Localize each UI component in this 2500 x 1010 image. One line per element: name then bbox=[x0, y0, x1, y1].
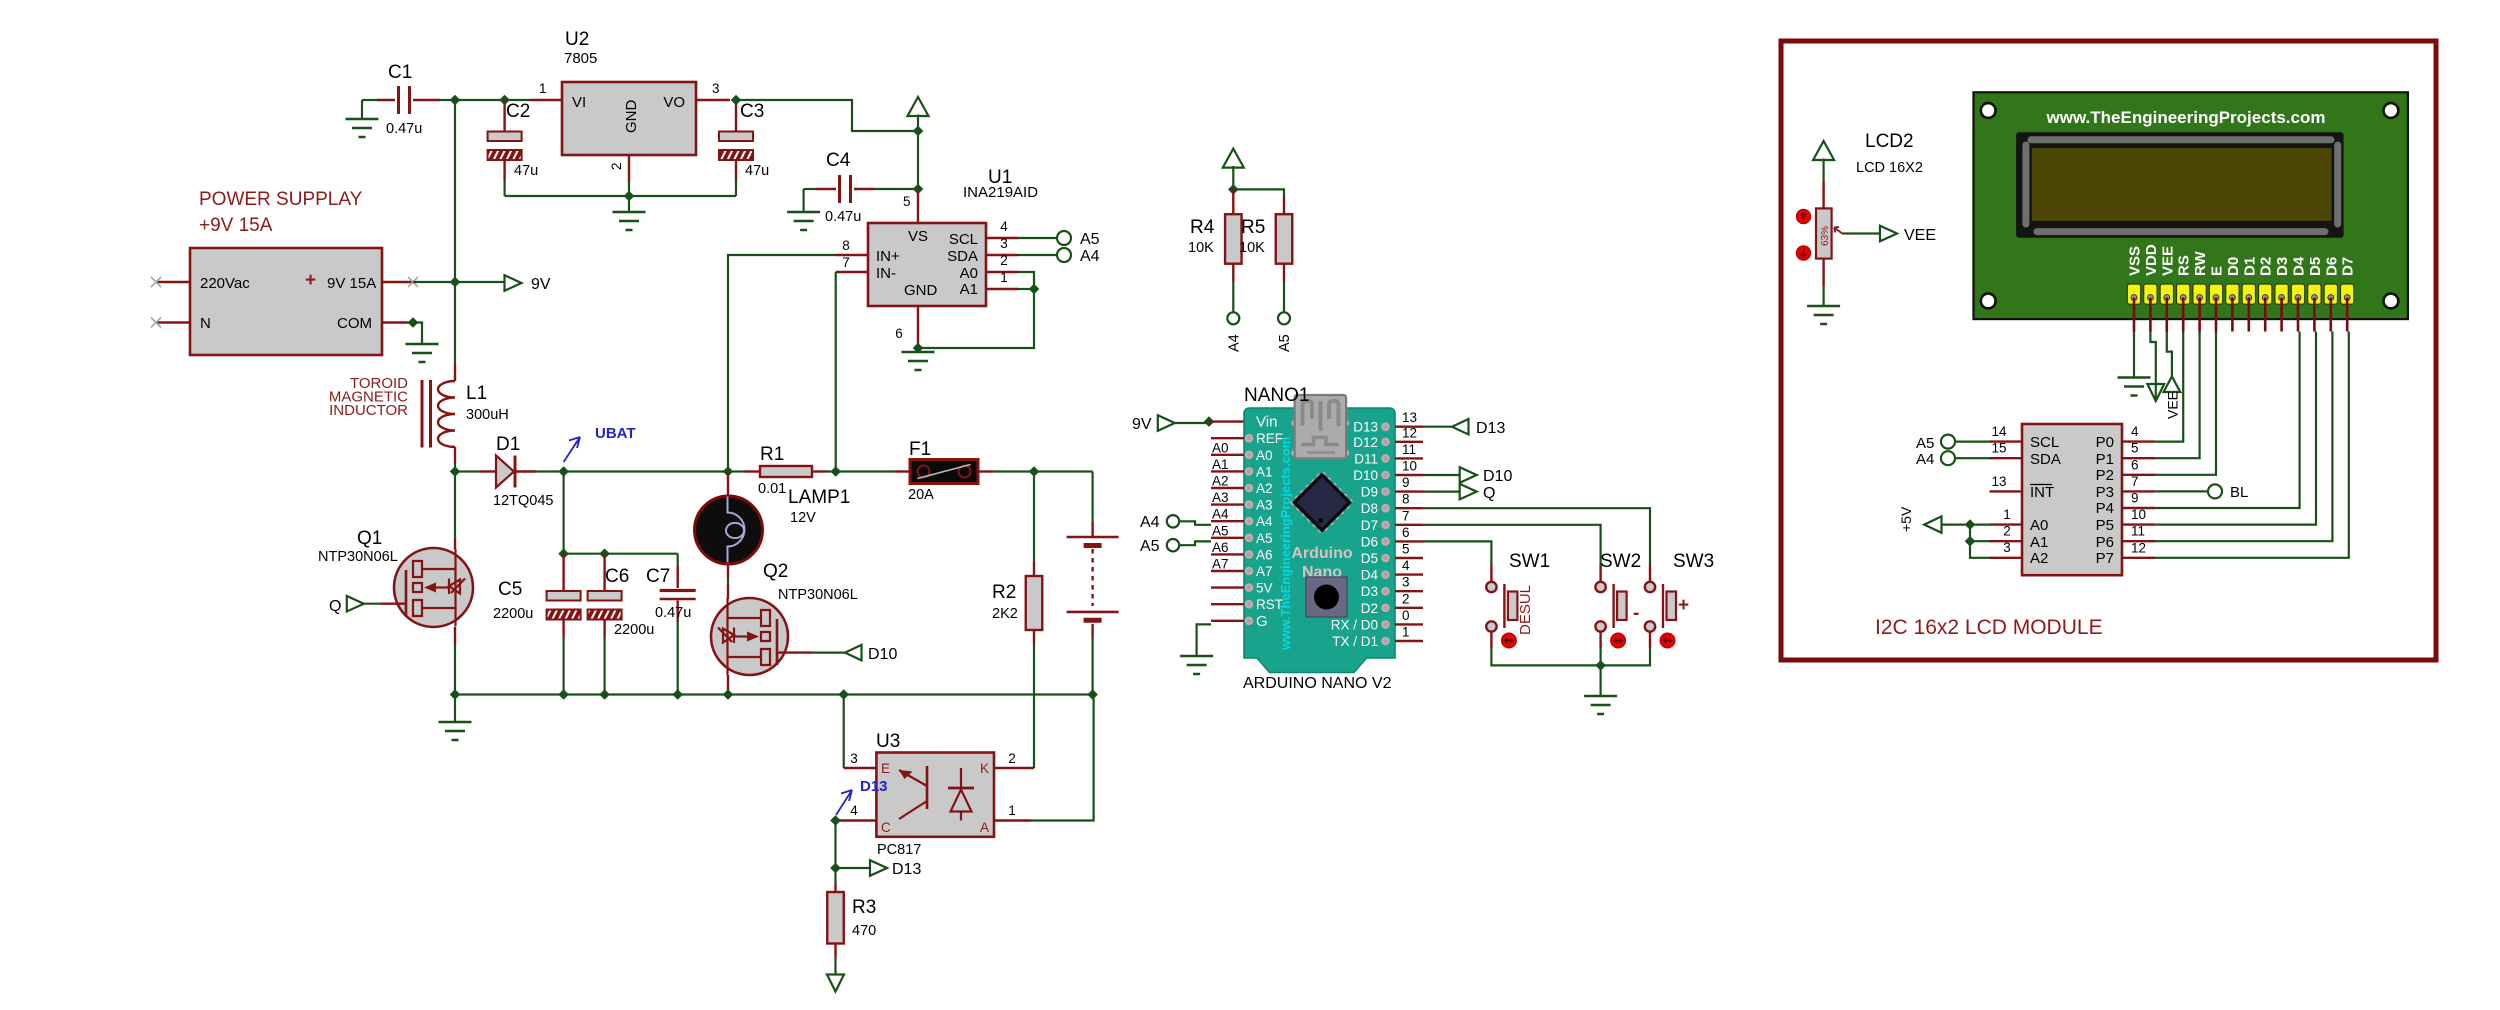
svg-text:VI: VI bbox=[572, 94, 586, 111]
pin stub nano A4 bbox=[1211, 507, 1273, 530]
transistor Q2 NTP30N06L bbox=[711, 561, 858, 695]
pin stub 9V output bbox=[382, 277, 418, 287]
svg-text:R3: R3 bbox=[852, 897, 876, 918]
svg-text:Vin: Vin bbox=[1256, 414, 1277, 431]
svg-text:P1: P1 bbox=[2096, 451, 2114, 468]
svg-text:3: 3 bbox=[1402, 575, 1410, 590]
svg-text:NANO1: NANO1 bbox=[1244, 385, 1309, 406]
svg-text:C4: C4 bbox=[826, 150, 851, 171]
svg-text:D4: D4 bbox=[2291, 256, 2308, 276]
svg-text:47u: 47u bbox=[745, 163, 769, 179]
svg-text:K: K bbox=[980, 761, 989, 776]
terminal BL bbox=[2208, 484, 2248, 501]
terminal A5 (R5) bbox=[1277, 312, 1293, 352]
svg-text:A5: A5 bbox=[1140, 538, 1160, 555]
svg-text:D0: D0 bbox=[2225, 257, 2242, 276]
svg-text:U2: U2 bbox=[565, 29, 589, 50]
junction C1/bus bbox=[450, 95, 461, 106]
svg-text:47u: 47u bbox=[514, 163, 538, 179]
svg-text:A2: A2 bbox=[1256, 481, 1273, 496]
pin stub nano D10 bbox=[1353, 459, 1423, 484]
resistor R1 0.01 bbox=[728, 444, 836, 497]
lcd pin RW bbox=[2192, 250, 2209, 331]
svg-text:7: 7 bbox=[1402, 508, 1410, 523]
wire C2 to U2 pin 1 bbox=[505, 99, 562, 101]
terminal Q (nano D9) bbox=[1460, 484, 1477, 500]
lcd pin D4 bbox=[2291, 256, 2308, 331]
svg-text:L1: L1 bbox=[466, 383, 487, 404]
lamp LAMP1 12V bbox=[695, 472, 851, 600]
svg-text:VEE: VEE bbox=[2159, 246, 2176, 276]
pin stub N bbox=[151, 318, 190, 328]
svg-text:9V: 9V bbox=[531, 276, 551, 293]
svg-text:A7: A7 bbox=[1212, 557, 1229, 572]
terminal 9V bbox=[505, 275, 522, 291]
svg-text:3: 3 bbox=[850, 751, 858, 766]
pin stub nano A6 bbox=[1211, 540, 1273, 563]
svg-text:REF: REF bbox=[1256, 431, 1283, 446]
svg-text:POWER SUPPLAY: POWER SUPPLAY bbox=[199, 189, 363, 210]
wire D13 to terminal bbox=[1423, 426, 1452, 428]
svg-text:7: 7 bbox=[2131, 474, 2139, 489]
frame I2C LCD module bbox=[1781, 41, 2436, 660]
wire lcd D7 to P7 bbox=[2156, 332, 2349, 558]
svg-text:COM: COM bbox=[337, 315, 372, 332]
svg-text:A4: A4 bbox=[1916, 451, 1934, 468]
svg-text:P4: P4 bbox=[2096, 500, 2114, 517]
svg-text:RW: RW bbox=[2192, 250, 2209, 276]
svg-text:C3: C3 bbox=[740, 101, 764, 122]
svg-text:D10: D10 bbox=[1483, 468, 1512, 485]
svg-text:VEE: VEE bbox=[2165, 391, 2181, 419]
wire lcd RW to P1 bbox=[2156, 332, 2200, 459]
pin stub nano A5 bbox=[1211, 523, 1273, 546]
pin stub nano D4 bbox=[1361, 558, 1423, 583]
fuse F1 20A bbox=[895, 439, 1034, 503]
pin 2 stub (U1 A0) bbox=[986, 253, 1034, 289]
junction C6 bottom bbox=[599, 689, 610, 700]
pot actuator down bbox=[1797, 246, 1811, 260]
svg-text:P6: P6 bbox=[2096, 534, 2114, 551]
pin stub COM bbox=[382, 321, 413, 323]
terminal A4 (U1 SDA) bbox=[1057, 248, 1100, 265]
lcd pin D5 bbox=[2307, 257, 2324, 332]
svg-text:P2: P2 bbox=[2096, 467, 2114, 484]
ground (main rail) bbox=[439, 695, 472, 741]
svg-text:VS: VS bbox=[908, 228, 928, 245]
wire down to C4 node bbox=[917, 131, 919, 189]
svg-text:A3: A3 bbox=[1212, 490, 1229, 505]
svg-text:D6: D6 bbox=[1361, 534, 1378, 549]
svg-text:0.01: 0.01 bbox=[758, 481, 786, 497]
wire bottom rail bbox=[455, 693, 1093, 695]
svg-text:P3: P3 bbox=[2096, 484, 2114, 501]
svg-text:D1: D1 bbox=[2241, 257, 2258, 276]
svg-text:I2C 16x2 LCD MODULE: I2C 16x2 LCD MODULE bbox=[1875, 616, 2103, 639]
svg-text:10K: 10K bbox=[1239, 240, 1265, 256]
wire SW1 to gnd rail bbox=[1491, 648, 1600, 665]
svg-text:+: + bbox=[1678, 595, 1689, 616]
pin 2 stub (A1) bbox=[1970, 524, 2022, 542]
svg-text:6: 6 bbox=[895, 326, 903, 341]
svg-text:D13: D13 bbox=[1353, 420, 1378, 435]
wire D7 to SW2 bbox=[1423, 525, 1601, 565]
capacitor C6 2200u bbox=[588, 554, 655, 695]
svg-text:D6: D6 bbox=[2323, 257, 2340, 276]
capacitor C1 bbox=[362, 62, 455, 137]
junction C3/VO bbox=[731, 95, 742, 106]
junction A0/A1 bbox=[1029, 284, 1040, 295]
lcd pin E bbox=[2209, 266, 2226, 332]
svg-text:ARDUINO NANO V2: ARDUINO NANO V2 bbox=[1243, 675, 1392, 692]
pin 5 stub (P1) bbox=[2122, 441, 2156, 459]
terminal D13 (U3) bbox=[870, 860, 887, 876]
svg-text:20A: 20A bbox=[908, 487, 934, 503]
svg-text:G: G bbox=[1256, 613, 1268, 630]
svg-text:A2: A2 bbox=[1212, 474, 1229, 489]
svg-text:4: 4 bbox=[1402, 558, 1410, 573]
lcd pin D7 bbox=[2340, 257, 2357, 332]
svg-text:2: 2 bbox=[2003, 524, 2011, 539]
svg-text:D10: D10 bbox=[1353, 468, 1378, 483]
svg-text:INDUCTOR: INDUCTOR bbox=[329, 402, 408, 419]
wire bus PSU to L1 bbox=[454, 282, 456, 364]
svg-text:A1: A1 bbox=[1212, 457, 1229, 472]
wire lcd RS to P0 bbox=[2156, 332, 2183, 442]
pin 7 stub (P3) bbox=[2122, 474, 2156, 492]
pin stub nano D8 bbox=[1361, 492, 1423, 517]
svg-text:D8: D8 bbox=[1361, 501, 1378, 516]
pin stub nano D2 bbox=[1361, 591, 1423, 616]
svg-text:A1: A1 bbox=[960, 281, 978, 298]
svg-text:-: - bbox=[1633, 603, 1639, 624]
ground (switches) bbox=[1584, 665, 1617, 714]
svg-text:SW3: SW3 bbox=[1673, 551, 1714, 572]
lcd display LCD board bbox=[1974, 92, 2408, 319]
svg-text:A4: A4 bbox=[1227, 334, 1243, 352]
terminal 9V (to Vin) bbox=[1132, 415, 1209, 433]
current sensor U1 INA219AID bbox=[868, 167, 1038, 306]
svg-text:10K: 10K bbox=[1188, 240, 1214, 256]
terminal D13 (nano) bbox=[1452, 419, 1469, 435]
svg-text:D3: D3 bbox=[2274, 257, 2291, 276]
svg-text:SCL: SCL bbox=[949, 231, 978, 248]
svg-text:D7: D7 bbox=[1361, 518, 1378, 533]
svg-text:4: 4 bbox=[1000, 219, 1008, 234]
svg-text:GND: GND bbox=[623, 100, 640, 134]
pin 4 stub (U1 SCL) bbox=[986, 219, 1058, 238]
svg-text:INT: INT bbox=[2030, 484, 2054, 501]
terminal Q (gate Q1) bbox=[329, 596, 364, 615]
pin stub nano D7 bbox=[1361, 508, 1423, 533]
svg-text:A4: A4 bbox=[1140, 514, 1160, 531]
power down arrow (lcd VDD) bbox=[2147, 332, 2164, 402]
svg-text:0: 0 bbox=[1402, 608, 1410, 623]
svg-text:D1: D1 bbox=[496, 434, 520, 455]
label TOROID MAGNETIC INDUCTOR bbox=[329, 375, 408, 419]
transistor Q1 NTP30N06L bbox=[318, 472, 473, 695]
svg-text:VEE: VEE bbox=[1904, 227, 1936, 244]
pin 13 stub (INT) bbox=[1990, 474, 2023, 491]
junction L1/D1/Q1 bbox=[450, 466, 461, 477]
pin 1 stub (U1 A1) bbox=[986, 270, 1034, 289]
wire pin4 down bbox=[834, 821, 836, 869]
svg-text:2: 2 bbox=[1402, 591, 1410, 606]
terminal A4 (nano) bbox=[1140, 514, 1211, 531]
junction C7 bottom bbox=[672, 689, 683, 700]
svg-text:A4: A4 bbox=[1212, 507, 1229, 522]
svg-text:VSS: VSS bbox=[2127, 246, 2144, 276]
pin 3 stub (A2) bbox=[1970, 540, 2022, 558]
svg-text:9: 9 bbox=[2131, 491, 2139, 506]
junction C4/VS bbox=[913, 184, 924, 195]
svg-text:2: 2 bbox=[1008, 751, 1016, 766]
power arrow (LCD2 pot) bbox=[1813, 141, 1834, 181]
i2c expander chip bbox=[2022, 424, 2122, 575]
svg-text:1: 1 bbox=[2003, 507, 2011, 522]
pin 6 stub (U1 GND) bbox=[895, 306, 918, 348]
lcd pin D3 bbox=[2274, 257, 2291, 332]
terminal +5V (i2c) bbox=[1898, 506, 1970, 533]
capacitor C5 2200u bbox=[493, 554, 581, 695]
pin 4 stub (P0) bbox=[2122, 424, 2156, 442]
pin 4 stub (U3 C) bbox=[836, 803, 877, 821]
svg-text:SCL: SCL bbox=[2030, 434, 2059, 451]
svg-text:A5: A5 bbox=[1916, 435, 1934, 452]
wire lcd E to P2 bbox=[2156, 332, 2216, 475]
svg-text:8: 8 bbox=[842, 238, 850, 253]
svg-text:LCD 16X2: LCD 16X2 bbox=[1856, 160, 1923, 176]
svg-text:D13: D13 bbox=[860, 778, 888, 795]
svg-text:INA219AID: INA219AID bbox=[963, 184, 1038, 201]
wire D10 to terminal bbox=[1423, 474, 1460, 476]
power arrow (R4/R5) bbox=[1223, 149, 1244, 190]
pin 8 stub (U1 IN+) bbox=[836, 238, 868, 255]
svg-text:0.47u: 0.47u bbox=[825, 209, 861, 225]
pin 14 stub (SCL) bbox=[1990, 424, 2023, 442]
svg-text:U3: U3 bbox=[876, 731, 900, 752]
svg-text:0.47u: 0.47u bbox=[655, 605, 691, 621]
terminal A5 (i2c) bbox=[1916, 435, 1990, 452]
pin stub nano Vin bbox=[1256, 414, 1277, 431]
svg-text:Arduino: Arduino bbox=[1291, 545, 1353, 562]
svg-text:D7: D7 bbox=[2340, 257, 2357, 276]
wire to D1 bbox=[455, 470, 480, 472]
svg-text:E: E bbox=[2209, 266, 2226, 276]
pin 12 stub (P7) bbox=[2122, 540, 2156, 558]
svg-text:7: 7 bbox=[842, 255, 850, 270]
lcd pin RS bbox=[2176, 255, 2193, 331]
svg-text:14: 14 bbox=[1991, 424, 2007, 439]
wire lcd D5 to P5 bbox=[2156, 332, 2316, 525]
svg-text:NTP30N06L: NTP30N06L bbox=[318, 549, 398, 565]
svg-text:Q: Q bbox=[1483, 485, 1495, 502]
svg-text:UBAT: UBAT bbox=[595, 425, 636, 442]
wire A1 to gnd net bbox=[918, 289, 1034, 348]
pin stub nano A3 bbox=[1211, 490, 1273, 512]
svg-text:5V: 5V bbox=[1256, 581, 1273, 596]
svg-text:D3: D3 bbox=[1361, 584, 1378, 599]
junction D1/C-bank bbox=[558, 466, 569, 477]
power terminal VEE (lcd) bbox=[2164, 332, 2181, 420]
switch SW2 bbox=[1595, 551, 1641, 648]
svg-text:5: 5 bbox=[1402, 542, 1410, 557]
svg-text:GND: GND bbox=[904, 282, 938, 299]
svg-text:D12: D12 bbox=[1353, 435, 1378, 450]
svg-text:D5: D5 bbox=[2307, 257, 2324, 276]
junction battery/gnd rail bbox=[1087, 689, 1098, 700]
node D13 label (blue) bbox=[836, 778, 888, 815]
pin stub nano A7 bbox=[1211, 557, 1273, 580]
junction switches gnd bbox=[1595, 660, 1606, 671]
junction 9V/Vin bbox=[1204, 416, 1215, 427]
junction D13/R3 bbox=[830, 863, 841, 874]
svg-text:R2: R2 bbox=[992, 582, 1016, 603]
svg-text:D5: D5 bbox=[1361, 551, 1378, 566]
svg-text:LAMP1: LAMP1 bbox=[788, 487, 850, 508]
svg-text:2: 2 bbox=[609, 162, 624, 170]
pin stub nano D11 bbox=[1354, 442, 1423, 467]
pin stub nano D6 bbox=[1361, 525, 1423, 550]
ground (C4) bbox=[787, 189, 820, 230]
junction PSU/bus bbox=[450, 277, 461, 288]
svg-text:LCD2: LCD2 bbox=[1865, 131, 1914, 152]
ground (C1) bbox=[346, 100, 379, 137]
resistor R2 2K2 bbox=[992, 472, 1042, 769]
battery cell bbox=[1067, 472, 1119, 695]
power down arrow (R3) bbox=[827, 975, 844, 992]
wire Q to gate bbox=[364, 603, 406, 605]
svg-text:A3: A3 bbox=[1256, 498, 1273, 513]
svg-text:9V: 9V bbox=[1132, 416, 1152, 433]
pin stub nano RST bbox=[1211, 597, 1283, 612]
resistor R5 10K bbox=[1239, 197, 1292, 312]
node UBAT label bbox=[564, 425, 636, 462]
svg-text:A5: A5 bbox=[1080, 231, 1100, 248]
svg-text:C1: C1 bbox=[388, 62, 412, 83]
svg-text:SW1: SW1 bbox=[1509, 551, 1550, 572]
terminal D10 (Q2 gate) bbox=[845, 645, 862, 661]
svg-text:1: 1 bbox=[539, 81, 547, 96]
ground (COM) bbox=[406, 323, 439, 363]
svg-text:RST: RST bbox=[1256, 597, 1283, 612]
arduino board NANO1 bbox=[1243, 385, 1395, 692]
svg-text:P5: P5 bbox=[2096, 517, 2114, 534]
power arrow (U1 VS supply) bbox=[908, 97, 929, 131]
junction C6 top bbox=[599, 548, 610, 559]
svg-text:R5: R5 bbox=[1241, 217, 1265, 238]
wire cap rail bbox=[564, 553, 678, 555]
junction R4/R5 top bbox=[1228, 184, 1239, 195]
lcd pin VEE bbox=[2159, 246, 2176, 332]
svg-text:D13: D13 bbox=[892, 861, 921, 878]
svg-text:13: 13 bbox=[1991, 474, 2006, 489]
junction R1/F1/IN- bbox=[830, 466, 841, 477]
label LCD2 bbox=[1856, 131, 1923, 176]
capacitor C3 47u bbox=[719, 100, 769, 196]
svg-text:9: 9 bbox=[1402, 475, 1410, 490]
lcd pin D6 bbox=[2323, 257, 2340, 332]
svg-text:SW2: SW2 bbox=[1600, 551, 1641, 572]
svg-text:D4: D4 bbox=[1361, 568, 1379, 583]
svg-text:6: 6 bbox=[1402, 525, 1410, 540]
wire UBAT rail bbox=[564, 470, 728, 472]
wire cap feeder bbox=[562, 472, 564, 554]
wire R1 node to F1 bbox=[836, 470, 895, 472]
svg-text:A4: A4 bbox=[1080, 248, 1100, 265]
wire P3 to BL bbox=[2156, 490, 2208, 492]
pin stub nano D5 bbox=[1361, 542, 1423, 567]
svg-text:13: 13 bbox=[1402, 410, 1417, 425]
power supply block PSU bbox=[190, 248, 382, 355]
svg-text:6: 6 bbox=[2131, 457, 2139, 472]
label POWER SUPPLAY bbox=[199, 189, 363, 236]
ground (pot) bbox=[1807, 306, 1840, 324]
wire IN- to R1/F1 node bbox=[835, 272, 837, 472]
pin stub nano D12 bbox=[1353, 425, 1423, 450]
svg-text:A1: A1 bbox=[2030, 534, 2048, 551]
svg-text:D9: D9 bbox=[1361, 485, 1378, 500]
pot actuator up bbox=[1797, 210, 1811, 224]
svg-text:C2: C2 bbox=[506, 101, 530, 122]
pin stub nano 5V bbox=[1211, 581, 1273, 596]
svg-text:A0: A0 bbox=[1212, 440, 1229, 455]
junction COM bbox=[408, 317, 419, 328]
svg-text:8: 8 bbox=[1402, 492, 1410, 507]
svg-text:1: 1 bbox=[1402, 625, 1410, 640]
terminal VEE (pot) bbox=[1880, 226, 1897, 242]
pin 6 stub (P2) bbox=[2122, 457, 2156, 475]
pin stub 220Vac bbox=[151, 277, 190, 287]
svg-text:TX / D1: TX / D1 bbox=[1332, 634, 1378, 649]
svg-text:15: 15 bbox=[1991, 441, 2006, 456]
wire to D13 terminal bbox=[836, 867, 871, 869]
svg-text:D2: D2 bbox=[2258, 257, 2275, 276]
lcd pin D2 bbox=[2258, 257, 2275, 332]
svg-text:4: 4 bbox=[850, 803, 858, 818]
wire to 9V terminal bbox=[455, 281, 505, 283]
svg-text:A7: A7 bbox=[1256, 564, 1273, 579]
terminal A4 (R4) bbox=[1227, 312, 1243, 352]
junction Q1/gnd rail bbox=[450, 689, 461, 700]
junction A1/A2 bbox=[1965, 536, 1976, 547]
svg-text:E: E bbox=[881, 761, 890, 776]
svg-text:12: 12 bbox=[2131, 540, 2146, 555]
svg-text:BL: BL bbox=[2230, 484, 2248, 501]
pot wiper to VEE bbox=[1834, 227, 1880, 234]
terminal A5 (U1 SCL) bbox=[1057, 231, 1100, 248]
svg-text:220Vac: 220Vac bbox=[200, 275, 250, 292]
ground (U1) bbox=[902, 348, 935, 370]
svg-text:11: 11 bbox=[1402, 442, 1416, 457]
wire to battery top bbox=[1034, 470, 1093, 472]
svg-text:10: 10 bbox=[1402, 459, 1417, 474]
resistor R4 10K bbox=[1188, 189, 1242, 312]
pin 3 stub (U2 VO) bbox=[696, 81, 730, 100]
pin stub nano D9 bbox=[1361, 475, 1423, 500]
svg-text:2K2: 2K2 bbox=[992, 606, 1018, 622]
svg-text:N: N bbox=[200, 315, 211, 332]
svg-text:9V 15A: 9V 15A bbox=[327, 275, 376, 292]
wire to R5 top bbox=[1233, 189, 1284, 197]
terminal D10 (nano) bbox=[1460, 467, 1477, 483]
svg-text:F1: F1 bbox=[909, 439, 931, 460]
svg-text:4: 4 bbox=[2131, 424, 2139, 439]
svg-text:7805: 7805 bbox=[564, 50, 597, 67]
svg-text:D2: D2 bbox=[1361, 601, 1378, 616]
svg-text:3: 3 bbox=[2003, 540, 2011, 555]
svg-text:A0: A0 bbox=[1256, 448, 1273, 463]
